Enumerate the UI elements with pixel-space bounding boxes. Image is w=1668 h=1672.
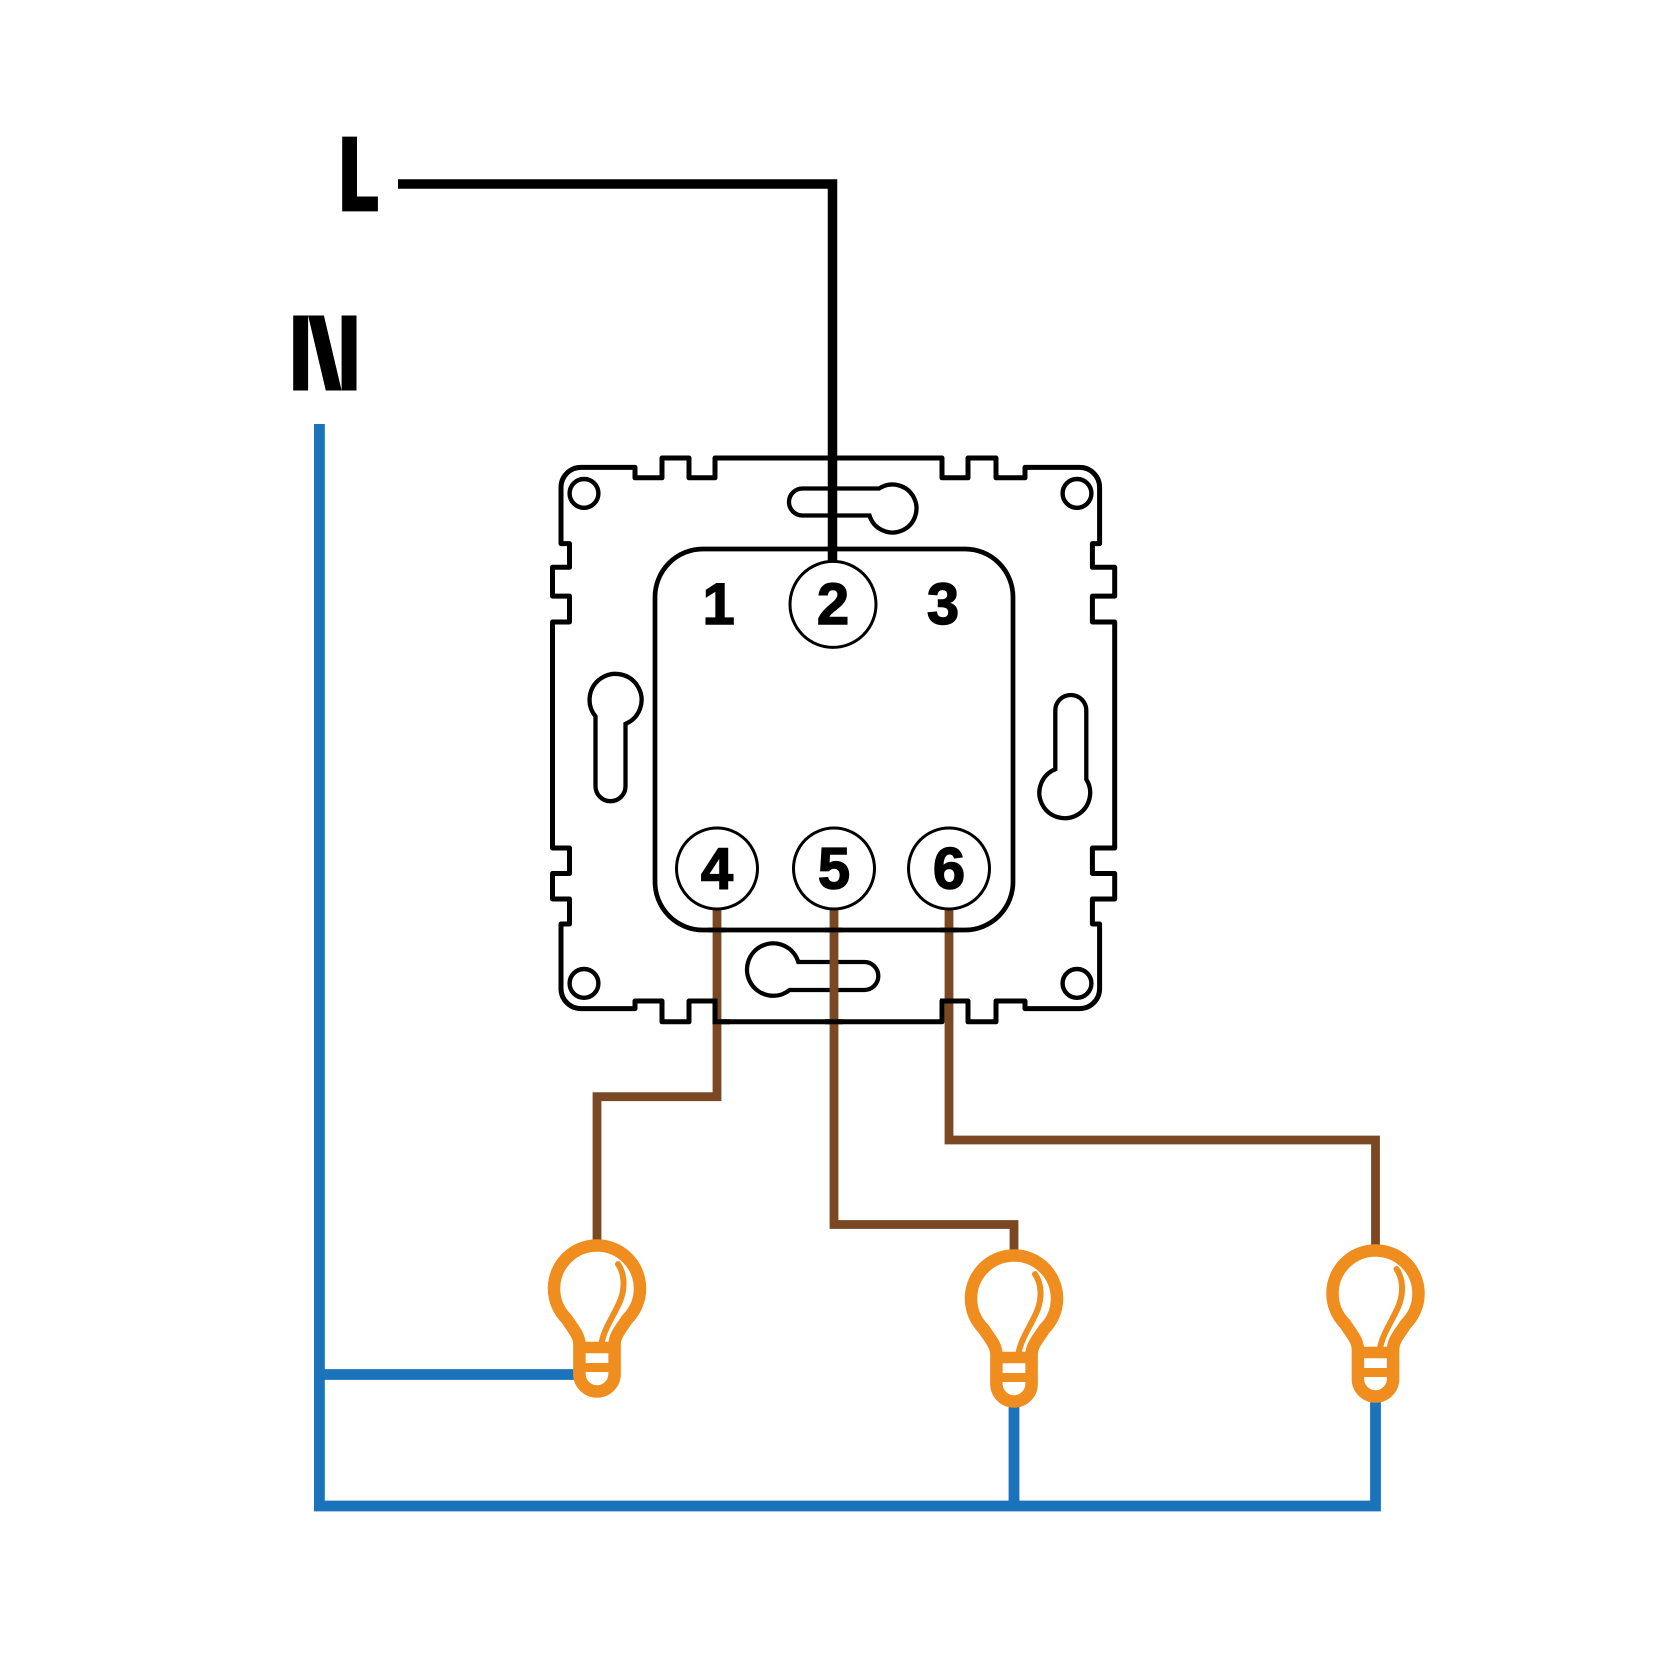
bottom keyhole slot <box>747 943 878 995</box>
wire L black feed <box>398 184 833 564</box>
left keyhole slot <box>590 674 642 801</box>
svg-text:3: 3 <box>927 572 959 637</box>
switch insert body <box>655 549 1013 930</box>
screw hole top-right <box>1063 479 1092 508</box>
wire N branch from lamp 2 <box>1009 1404 1020 1506</box>
svg-text:1: 1 <box>702 572 734 637</box>
switch mechanism mounting plate <box>553 458 1115 1022</box>
wire brown terminal 5 to lamp 2 <box>834 908 1014 1251</box>
screw hole bottom-left <box>570 969 599 998</box>
screw hole bottom-right <box>1063 969 1092 998</box>
wire N branch to lamp 1 <box>319 1369 580 1380</box>
right keyhole slot <box>1039 695 1090 818</box>
svg-text:4: 4 <box>701 837 733 902</box>
screw hole top-left <box>570 479 599 508</box>
terminal 5 circle <box>794 828 875 909</box>
lamp 3 <box>1333 1250 1419 1396</box>
terminal 6 circle <box>909 828 990 909</box>
top keyhole slot <box>789 485 916 533</box>
svg-text:6: 6 <box>933 837 965 902</box>
junction overlays <box>704 930 958 1022</box>
wire N blue neutral run <box>319 424 1375 1506</box>
wire brown terminal 4 to lamp 1 <box>597 908 717 1241</box>
svg-text:2: 2 <box>817 572 849 637</box>
terminal 4 circle <box>677 828 758 909</box>
wire brown terminal 6 to lamp 3 <box>949 908 1376 1245</box>
lamp 1 <box>554 1245 640 1391</box>
lamp 2 <box>971 1255 1057 1401</box>
label L (line) <box>342 137 378 212</box>
terminal 2 circle <box>790 561 876 647</box>
svg-text:5: 5 <box>818 837 850 902</box>
label N (neutral) <box>293 316 356 391</box>
